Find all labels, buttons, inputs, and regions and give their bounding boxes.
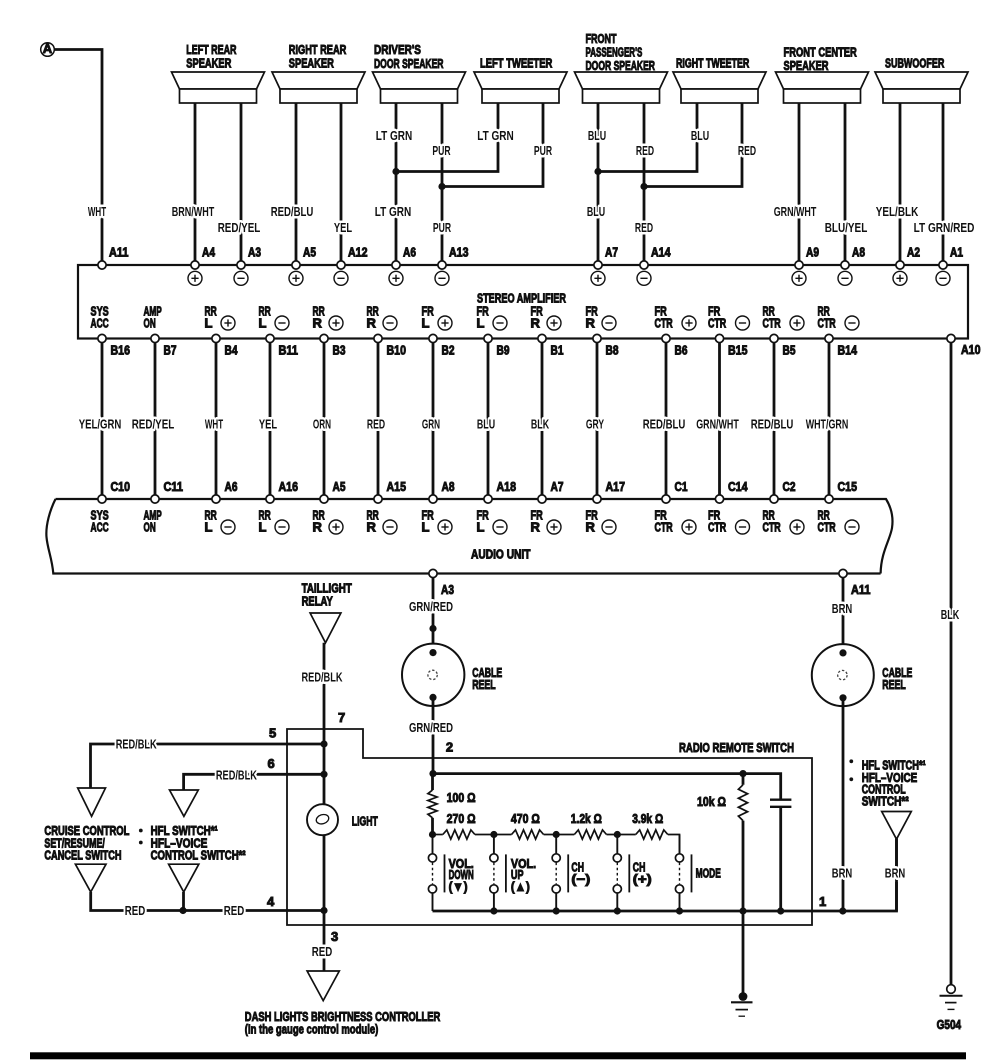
svg-text:B2: B2 xyxy=(442,343,455,358)
svg-text:SUBWOOFER: SUBWOOFER xyxy=(885,56,945,71)
svg-text:BRN: BRN xyxy=(832,601,853,616)
svg-text:GRN/WHT: GRN/WHT xyxy=(696,417,739,432)
svg-text:B1: B1 xyxy=(551,343,564,358)
svg-text:RIGHT TWEETER: RIGHT TWEETER xyxy=(676,56,750,71)
svg-text:A4: A4 xyxy=(202,245,216,260)
svg-text:GRN/WHT: GRN/WHT xyxy=(774,204,817,219)
svg-text:BLK: BLK xyxy=(531,417,550,432)
svg-text:C10: C10 xyxy=(111,479,131,494)
svg-text:3.9k Ω: 3.9k Ω xyxy=(632,811,663,826)
svg-text:A6: A6 xyxy=(225,479,238,494)
svg-text:L: L xyxy=(205,520,213,535)
svg-text:(+): (+) xyxy=(633,871,652,886)
svg-text:ON: ON xyxy=(144,520,156,535)
svg-text:R: R xyxy=(531,520,541,535)
svg-text:L: L xyxy=(477,520,485,535)
svg-text:YEL/BLK: YEL/BLK xyxy=(876,204,919,219)
svg-text:B9: B9 xyxy=(497,343,510,358)
svg-text:ACC: ACC xyxy=(91,520,110,535)
svg-text:SPEAKER: SPEAKER xyxy=(186,56,231,71)
svg-text:WHT: WHT xyxy=(205,417,223,432)
svg-text:R: R xyxy=(367,316,377,331)
svg-text:LT GRN: LT GRN xyxy=(376,128,413,143)
svg-text:BLU: BLU xyxy=(587,204,605,219)
svg-text:A1: A1 xyxy=(950,245,963,260)
svg-text:CTR: CTR xyxy=(818,520,837,535)
svg-text:A9: A9 xyxy=(806,245,819,260)
svg-text:LEFT TWEETER: LEFT TWEETER xyxy=(480,56,553,71)
svg-text:L: L xyxy=(422,316,430,331)
svg-text:A8: A8 xyxy=(852,245,865,260)
svg-text:B16: B16 xyxy=(111,343,131,358)
svg-text:PUR: PUR xyxy=(433,220,452,235)
svg-text:RED: RED xyxy=(635,220,653,235)
svg-text:C2: C2 xyxy=(783,479,796,494)
svg-text:C14: C14 xyxy=(728,479,748,494)
svg-text:GRN: GRN xyxy=(422,417,440,432)
svg-text:A11: A11 xyxy=(109,245,129,260)
svg-text:WHT/GRN: WHT/GRN xyxy=(806,417,849,432)
svg-text:CTR: CTR xyxy=(708,316,727,331)
svg-text:AUDIO UNIT: AUDIO UNIT xyxy=(471,547,531,562)
svg-text:LT GRN/RED: LT GRN/RED xyxy=(914,220,975,235)
svg-text:1.2k Ω: 1.2k Ω xyxy=(571,811,602,826)
svg-text:SPEAKER: SPEAKER xyxy=(784,58,829,73)
svg-text:CONTROL SWITCH*²: CONTROL SWITCH*² xyxy=(151,847,246,862)
svg-text:A16: A16 xyxy=(279,479,299,494)
svg-text:C1: C1 xyxy=(675,479,688,494)
svg-text:RED: RED xyxy=(224,903,245,918)
svg-text:BLU: BLU xyxy=(691,128,709,143)
svg-text:BRN/WHT: BRN/WHT xyxy=(172,204,215,219)
svg-text:GRN/RED: GRN/RED xyxy=(409,599,453,614)
svg-text:A5: A5 xyxy=(333,479,346,494)
svg-text:(▲): (▲) xyxy=(511,879,530,894)
svg-text:PUR: PUR xyxy=(534,143,553,158)
svg-text:B11: B11 xyxy=(279,343,299,358)
svg-text:B5: B5 xyxy=(783,343,796,358)
svg-text:B7: B7 xyxy=(164,343,177,358)
svg-text:L: L xyxy=(259,520,267,535)
svg-text:WHT: WHT xyxy=(88,204,106,219)
svg-text:10k Ω: 10k Ω xyxy=(697,794,726,809)
svg-text:(▼): (▼) xyxy=(449,879,468,894)
svg-text:DRIVER'S: DRIVER'S xyxy=(374,42,421,57)
svg-text:BLU: BLU xyxy=(588,128,606,143)
svg-text:A7: A7 xyxy=(551,479,564,494)
svg-text:RED/BLU: RED/BLU xyxy=(271,204,314,219)
svg-text:RED/BLK: RED/BLK xyxy=(216,767,257,782)
svg-text:GRN/RED: GRN/RED xyxy=(409,720,453,735)
svg-text:A18: A18 xyxy=(497,479,517,494)
svg-text:BRN: BRN xyxy=(832,866,853,881)
svg-text:2: 2 xyxy=(446,740,453,755)
svg-text:B14: B14 xyxy=(838,343,858,358)
svg-text:RED: RED xyxy=(636,143,654,158)
svg-text:B8: B8 xyxy=(606,343,619,358)
svg-text:B15: B15 xyxy=(728,343,748,358)
svg-text:RELAY: RELAY xyxy=(302,594,333,609)
svg-text:4: 4 xyxy=(267,894,275,909)
svg-text:A5: A5 xyxy=(303,245,316,260)
svg-text:CTR: CTR xyxy=(818,316,837,331)
svg-text:MODE: MODE xyxy=(696,866,721,881)
svg-text:DOOR SPEAKER: DOOR SPEAKER xyxy=(374,56,444,71)
svg-text:RED: RED xyxy=(125,903,146,918)
svg-text:BLU: BLU xyxy=(477,417,495,432)
svg-text:(In the gauge control module): (In the gauge control module) xyxy=(245,1021,378,1036)
svg-text:RED/YEL: RED/YEL xyxy=(132,417,175,432)
svg-text:270 Ω: 270 Ω xyxy=(447,811,476,826)
svg-text:B4: B4 xyxy=(225,343,239,358)
svg-text:R: R xyxy=(586,520,596,535)
svg-text:A: A xyxy=(43,41,53,56)
svg-text:SWITCH*²: SWITCH*² xyxy=(862,793,910,808)
svg-text:BLK: BLK xyxy=(941,607,960,622)
svg-text:A8: A8 xyxy=(442,479,455,494)
svg-text:6: 6 xyxy=(268,756,275,771)
svg-text:100 Ω: 100 Ω xyxy=(447,790,476,805)
svg-text:LT GRN: LT GRN xyxy=(375,204,412,219)
svg-text:CTR: CTR xyxy=(655,520,674,535)
svg-text:CTR: CTR xyxy=(655,316,674,331)
svg-text:A15: A15 xyxy=(387,479,407,494)
svg-text:ORN: ORN xyxy=(313,417,331,432)
svg-text:A3: A3 xyxy=(441,582,454,597)
svg-text:REEL: REEL xyxy=(882,677,906,692)
svg-text:YEL/GRN: YEL/GRN xyxy=(79,417,122,432)
svg-text:R: R xyxy=(367,520,377,535)
svg-text:ACC: ACC xyxy=(91,316,110,331)
svg-text:1: 1 xyxy=(819,894,826,909)
svg-text:L: L xyxy=(422,520,430,535)
svg-text:A2: A2 xyxy=(907,245,920,260)
svg-text:RED/BLK: RED/BLK xyxy=(116,737,157,752)
svg-text:L: L xyxy=(259,316,267,331)
svg-text:R: R xyxy=(586,316,596,331)
svg-text:RED/BLK: RED/BLK xyxy=(302,670,343,685)
svg-text:RED/BLU: RED/BLU xyxy=(643,417,686,432)
svg-text:RED: RED xyxy=(738,143,756,158)
svg-text:A11: A11 xyxy=(851,582,871,597)
svg-text:3: 3 xyxy=(331,929,338,944)
svg-text:(−): (−) xyxy=(571,871,590,886)
svg-text:YEL: YEL xyxy=(259,417,277,432)
svg-text:REEL: REEL xyxy=(472,677,496,692)
svg-text:B3: B3 xyxy=(333,343,346,358)
svg-text:CANCEL SWITCH: CANCEL SWITCH xyxy=(44,847,121,862)
svg-text:C15: C15 xyxy=(838,479,858,494)
svg-text:R: R xyxy=(313,316,323,331)
svg-text:A3: A3 xyxy=(248,245,261,260)
svg-text:RED: RED xyxy=(367,417,385,432)
svg-text:GRY: GRY xyxy=(586,417,604,432)
svg-text:CTR: CTR xyxy=(708,520,727,535)
svg-text:C11: C11 xyxy=(164,479,184,494)
svg-text:CTR: CTR xyxy=(763,520,782,535)
svg-text:RADIO REMOTE SWITCH: RADIO REMOTE SWITCH xyxy=(679,740,794,755)
svg-text:PUR: PUR xyxy=(432,143,451,158)
svg-text:A7: A7 xyxy=(605,245,618,260)
svg-text:A14: A14 xyxy=(651,245,671,260)
svg-text:ON: ON xyxy=(144,316,156,331)
svg-text:B6: B6 xyxy=(675,343,688,358)
svg-text:SPEAKER: SPEAKER xyxy=(289,56,334,71)
svg-text:A13: A13 xyxy=(449,245,469,260)
svg-text:B10: B10 xyxy=(387,343,407,358)
svg-text:BLU/YEL: BLU/YEL xyxy=(825,220,868,235)
svg-text:RED: RED xyxy=(312,944,333,959)
svg-text:L: L xyxy=(205,316,213,331)
svg-text:R: R xyxy=(313,520,323,535)
svg-text:470 Ω: 470 Ω xyxy=(511,811,540,826)
svg-text:G504: G504 xyxy=(937,1017,962,1032)
svg-text:YEL: YEL xyxy=(334,220,352,235)
svg-text:LT GRN: LT GRN xyxy=(477,128,514,143)
svg-text:BRN: BRN xyxy=(885,866,906,881)
svg-text:A6: A6 xyxy=(403,245,416,260)
svg-text:L: L xyxy=(477,316,485,331)
svg-text:STEREO AMPLIFIER: STEREO AMPLIFIER xyxy=(477,291,566,306)
svg-text:A12: A12 xyxy=(348,245,368,260)
svg-text:5: 5 xyxy=(269,726,276,741)
svg-text:RED/YEL: RED/YEL xyxy=(218,220,261,235)
svg-text:R: R xyxy=(531,316,541,331)
svg-text:7: 7 xyxy=(338,710,345,725)
svg-text:DOOR SPEAKER: DOOR SPEAKER xyxy=(586,58,656,73)
svg-text:A17: A17 xyxy=(606,479,626,494)
svg-text:RED/BLU: RED/BLU xyxy=(751,417,794,432)
svg-text:A10: A10 xyxy=(961,342,981,357)
svg-text:LIGHT: LIGHT xyxy=(352,814,378,829)
svg-text:CTR: CTR xyxy=(763,316,782,331)
